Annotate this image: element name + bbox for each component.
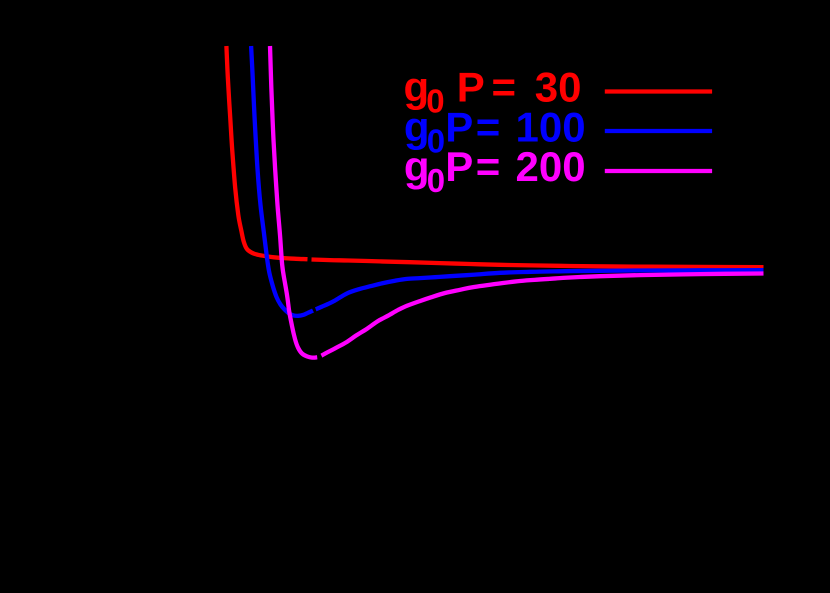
blue curve g0P=100, right segment <box>316 270 764 309</box>
red curve g0P=30, left segment <box>226 46 307 259</box>
legend sample line red <box>605 89 712 93</box>
red curve g0P=30, right segment <box>312 260 764 268</box>
blue curve g0P=100, left segment <box>251 46 313 316</box>
magenta curve g0P=200, right segment <box>321 274 763 356</box>
magenta curve g0P=200, left segment <box>270 46 317 358</box>
legend sample line blue <box>605 129 712 133</box>
legend sample line magenta <box>605 169 712 173</box>
